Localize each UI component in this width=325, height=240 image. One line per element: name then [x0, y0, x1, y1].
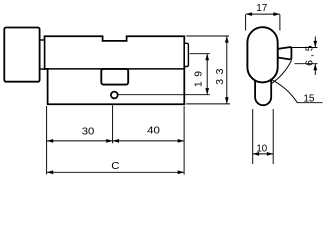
- svg-text:17: 17: [256, 3, 268, 14]
- svg-text:C: C: [111, 161, 119, 172]
- svg-text:6,5: 6,5: [304, 42, 315, 65]
- svg-text:10: 10: [256, 144, 267, 155]
- svg-text:30: 30: [82, 126, 95, 137]
- svg-text:33: 33: [215, 64, 226, 85]
- svg-text:15: 15: [303, 93, 315, 104]
- svg-text:40: 40: [147, 125, 160, 136]
- svg-text:19: 19: [194, 66, 205, 87]
